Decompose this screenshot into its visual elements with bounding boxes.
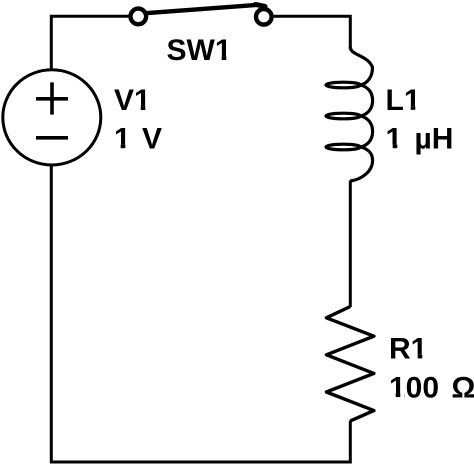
white cover for SW1 digit-1 foot serif xyxy=(216,56,232,60)
inductor L1 coil xyxy=(326,47,373,181)
wire top-right: SW1 to inductor L1 top xyxy=(274,16,351,49)
white cover for 1 V digit-1 foot serif xyxy=(115,145,131,149)
white cover for L1 digit-1 foot serif xyxy=(405,106,421,110)
voltage source V1 plus sign xyxy=(36,82,68,114)
stem restore for R1 digit-1 xyxy=(418,355,423,359)
svg-text:SW1: SW1 xyxy=(167,34,232,67)
switch SW1 right terminal circle xyxy=(256,9,272,25)
white cover for 100 digit-1 foot serif xyxy=(390,394,405,398)
stem restore for 100 digit-1 xyxy=(396,394,401,398)
wire bottom: R1 bottom, bottom rail, up to V1 bottom terminal xyxy=(51,166,350,462)
white cover for V1 digit-1 foot serif xyxy=(135,106,151,110)
white cover for 1 uH digit-1 foot serif xyxy=(386,145,402,149)
svg-text:R1: R1 xyxy=(389,333,427,366)
stem restore for SW1 digit-1 xyxy=(222,56,227,60)
svg-text:L1: L1 xyxy=(386,84,421,117)
svg-text:1 µH: 1 µH xyxy=(386,122,454,155)
svg-text:1 V: 1 V xyxy=(114,122,162,155)
stem restore for V1 digit-1 xyxy=(141,106,146,110)
wire top-left: V1 top terminal up and right to SW1 xyxy=(51,16,128,69)
switch SW1 lever xyxy=(146,5,259,13)
svg-text:100 Ω: 100 Ω xyxy=(389,371,474,404)
voltage source V1 minus sign xyxy=(36,136,68,140)
svg-text:V1: V1 xyxy=(114,84,151,117)
stem restore for 1 uH digit-1 xyxy=(393,145,398,149)
switch SW1 lever tip contact xyxy=(256,4,266,6)
resistor R1 zigzag xyxy=(326,307,374,421)
wire middle-right: L1 bottom to R1 top xyxy=(349,181,352,308)
stem restore for L1 digit-1 xyxy=(411,106,416,110)
voltage source V1 circle xyxy=(3,70,101,165)
stem restore for 1 V digit-1 xyxy=(121,145,126,149)
switch SW1 left terminal circle xyxy=(131,9,147,25)
white cover for R1 digit-1 foot serif xyxy=(412,355,428,359)
